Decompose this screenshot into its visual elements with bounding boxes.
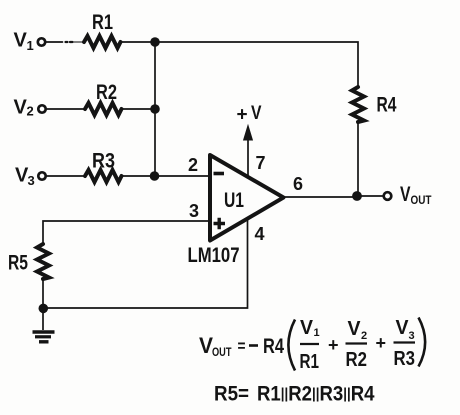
resistor R4 (352, 87, 364, 122)
wire summing node vertical (154, 42, 156, 176)
svg-text:+: + (376, 333, 387, 353)
wire output pin 6 (283, 196, 357, 198)
wire feedback top from summing node to R4 (155, 42, 358, 87)
svg-text:3: 3 (409, 330, 415, 342)
svg-text:R1: R1 (92, 11, 113, 34)
svg-text:3: 3 (189, 201, 199, 221)
wire R1 to summing node (121, 41, 156, 43)
svg-text:V: V (300, 317, 314, 339)
right parenthesis (419, 318, 426, 367)
svg-text:4: 4 (255, 224, 265, 244)
junction dot node A (R1) (150, 37, 160, 47)
svg-text:2: 2 (188, 155, 198, 175)
resistor R1 (84, 36, 121, 48)
junction dot ground node (39, 304, 49, 314)
input terminal V3 (38, 172, 45, 179)
+V supply arrowhead (244, 126, 253, 141)
svg-text:R3: R3 (394, 348, 416, 370)
svg-text:R2: R2 (96, 81, 117, 104)
svg-text:R2: R2 (346, 349, 368, 371)
svg-text:3: 3 (28, 173, 35, 188)
op-amp non-inverting input plus sign (214, 218, 226, 229)
svg-text:2: 2 (361, 330, 367, 342)
junction dot output node (352, 191, 362, 201)
op-amp U1 triangle (210, 155, 284, 241)
svg-text:1: 1 (27, 38, 34, 53)
svg-text:V: V (14, 97, 28, 119)
svg-text:7: 7 (256, 153, 266, 173)
input terminal V1 (38, 38, 45, 45)
resistor R5 (37, 244, 49, 279)
svg-text:R4: R4 (263, 335, 284, 358)
svg-text:+: + (237, 105, 248, 126)
resistor R2 (85, 103, 122, 115)
formula Vout = -R4( V1/R1 + V2/R2 + V3/R3 ) (199, 317, 425, 373)
svg-text:R1||R2||R3||R4: R1||R2||R3||R4 (257, 383, 375, 406)
wire ground node to op-amp pin 4 (43, 219, 248, 308)
input terminal V2 (38, 105, 45, 112)
svg-text:6: 6 (293, 174, 303, 194)
junction dot node B (R2) (150, 104, 160, 114)
wire R3 to op-amp pin 2 (122, 175, 211, 177)
wire V2 to R2 (46, 108, 85, 110)
resistor R3 (85, 170, 122, 182)
ground symbol (33, 308, 55, 342)
svg-text:V: V (348, 318, 362, 340)
svg-text:V: V (400, 183, 411, 206)
svg-text:OUT: OUT (411, 193, 433, 207)
svg-text:=: = (238, 337, 246, 356)
left parenthesis (288, 320, 295, 371)
svg-text:R5=: R5= (214, 383, 249, 406)
svg-text:U1: U1 (224, 189, 244, 212)
wire output node to output terminal (357, 195, 384, 197)
op-amp inverting input minus sign (214, 172, 225, 176)
wire R4 to output node (357, 122, 359, 196)
wire op-amp pin 7 to supply arrow (247, 130, 249, 176)
output terminal circle (384, 192, 392, 200)
svg-text:R4: R4 (377, 94, 397, 117)
junction dot node C (R3 / pin 2) (150, 171, 160, 181)
svg-text:OUT: OUT (212, 345, 232, 359)
svg-text:V: V (396, 317, 410, 339)
svg-text:V: V (14, 30, 28, 52)
wire V3 to R3 (46, 175, 85, 177)
svg-text:1: 1 (314, 327, 320, 339)
wire R2 to summing node (122, 108, 156, 110)
svg-text:R1: R1 (300, 351, 320, 373)
wire V1 to R1 (46, 41, 63, 43)
svg-text:V: V (251, 103, 262, 124)
svg-text:+: + (328, 335, 339, 355)
wire R5 to ground node (42, 279, 44, 308)
svg-text:R5: R5 (8, 252, 28, 275)
svg-text:2: 2 (27, 104, 34, 119)
wire op-amp pin 3 to R5 (43, 221, 210, 244)
svg-text:LM107: LM107 (188, 244, 240, 267)
svg-text:R3: R3 (92, 150, 115, 173)
